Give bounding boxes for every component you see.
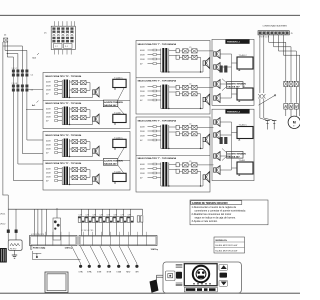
relay contacts cluster bbox=[169, 126, 176, 128]
svg-text:C5: C5 bbox=[189, 47, 191, 49]
connector plug (R column 1) bbox=[214, 50, 221, 59]
svg-text:400V: 400V bbox=[46, 168, 51, 170]
wire supply entry bbox=[3, 42, 27, 57]
wire bottom frame line bbox=[0, 292, 300, 294]
wire M1 separator bbox=[136, 77, 210, 79]
svg-text:1 2 3 4 5 6 7 8: 1 2 3 4 5 6 7 8 9 bbox=[81, 230, 93, 232]
connector plug (R column 3) bbox=[214, 80, 221, 89]
svg-text:1-Desconectar el neutro de: 1-Desconectar el neutro de la regleta de bbox=[192, 206, 237, 209]
TOPOGRAFIA box M2 bbox=[136, 117, 210, 192]
svg-text:0 2N 2V 1N 1V N: 0 2N 2V 1N 1V N bbox=[31, 234, 45, 236]
note box MODELOS bbox=[214, 237, 245, 253]
connector plug J bbox=[203, 97, 206, 101]
connector plug J bbox=[93, 117, 96, 121]
selector box L1 (SELECCIONA TIPO T2) bbox=[43, 73, 130, 129]
svg-text:TENSION L1: TENSION L1 bbox=[227, 42, 241, 44]
svg-text:6 NE: 6 NE bbox=[97, 271, 102, 273]
svg-text:SU-80L MOTOR 20 kW: SU-80L MOTOR 20 kW bbox=[215, 250, 237, 252]
wire sub-circuit links bbox=[86, 109, 90, 111]
transformer T (middle column) bbox=[160, 163, 162, 187]
display T1-400 bbox=[237, 160, 253, 175]
node wire tags 2V 2N bbox=[7, 230, 18, 233]
selector box L2 (SELECCIONA TIPO T1) bbox=[43, 132, 130, 191]
svg-text:12M 3φ: 12M 3φ bbox=[65, 247, 73, 249]
wire phase feeders bbox=[13, 46, 27, 70]
svg-text:12M 3φ: 12M 3φ bbox=[151, 249, 159, 251]
svg-text:130V: 130V bbox=[46, 116, 51, 118]
wire sub-circuit links bbox=[197, 170, 200, 172]
DIP switch block S1 bbox=[51, 21, 75, 54]
relay contacts cluster bbox=[70, 168, 73, 170]
wire sub-circuit links bbox=[197, 56, 200, 58]
svg-text:230V: 230V bbox=[140, 168, 145, 170]
svg-text:230V: 230V bbox=[46, 85, 51, 87]
connector plug (R column 4) bbox=[214, 166, 221, 175]
panel icon lines bottom bbox=[176, 283, 183, 286]
transformer sub-circuit M1b bbox=[138, 80, 214, 110]
display drum graphic bbox=[193, 266, 209, 282]
wire breaker output to L1 (lower) bbox=[26, 109, 43, 111]
transformer sub-circuit L2b bbox=[45, 162, 99, 185]
node cable marker dim2 bbox=[32, 101, 39, 108]
svg-text:segun se indica en la caj: segun se indica en la caja de bornes. bbox=[195, 216, 237, 219]
header bar TENSION L2 bbox=[225, 109, 249, 113]
callout AJUSTE TENSION bbox=[222, 149, 246, 161]
svg-text:(F)C1: (F)C1 bbox=[0, 214, 6, 216]
svg-text:(F)C2: (F)C2 bbox=[0, 224, 6, 226]
wire L2 separator bbox=[43, 159, 130, 161]
svg-text:400V: 400V bbox=[140, 86, 145, 88]
inspection window box bbox=[45, 272, 68, 293]
EMI filter FL1 bbox=[8, 240, 22, 250]
wire sub-circuit links bbox=[197, 93, 200, 95]
svg-text:M: M bbox=[293, 121, 296, 125]
contactor K1 (4-pole row 2) bbox=[12, 83, 29, 92]
transformer T (middle column) bbox=[160, 125, 162, 149]
transformer T (left column) bbox=[61, 107, 63, 125]
wire M2 separator bbox=[136, 155, 210, 157]
relay module K3 bbox=[53, 208, 61, 240]
svg-text:130V: 130V bbox=[46, 89, 51, 91]
panel icon lines top bbox=[176, 265, 183, 268]
node cable marker dim1 bbox=[33, 53, 40, 60]
wire drops to strip 1 bbox=[34, 209, 46, 235]
svg-text:NEU: NEU bbox=[126, 271, 131, 273]
connector plug J bbox=[203, 137, 206, 141]
wire sub-circuit links bbox=[86, 169, 90, 171]
transformer T (left column) bbox=[61, 139, 63, 157]
wire between breaker rows bbox=[13, 77, 27, 85]
svg-text:130V: 130V bbox=[140, 95, 145, 97]
wire L1 separator bbox=[43, 100, 130, 102]
transformer sub-circuit M1a bbox=[138, 43, 214, 73]
wire left edge run bbox=[2, 46, 4, 195]
note box CAMBIO DE TENSION bbox=[190, 200, 268, 225]
panel label bar bbox=[184, 287, 217, 292]
wire breaker output to L1 (upper) bbox=[28, 89, 43, 91]
relay contacts cluster bbox=[169, 86, 176, 88]
wire horizontal bus bbox=[8, 208, 142, 210]
transformer T (left column) bbox=[61, 167, 63, 185]
svg-text:2-Realizar las conexiones d: 2-Realizar las conexiones del motor bbox=[192, 213, 232, 216]
svg-text:MODELOS:: MODELOS: bbox=[216, 240, 228, 242]
connector plug J bbox=[93, 90, 96, 94]
transformer sub-circuit L1a bbox=[45, 75, 99, 98]
transformer sub-circuit L1b bbox=[45, 102, 99, 125]
control panel bezel bbox=[163, 262, 241, 293]
svg-text:SU-80L MOTOR 15 kW: SU-80L MOTOR 15 kW bbox=[215, 245, 237, 247]
terminal posts row bbox=[79, 265, 139, 274]
svg-text:1 3 5 7: 1 3 5 7 bbox=[12, 68, 18, 70]
component pair (R2 inputs) bbox=[220, 137, 228, 144]
overload relay F1 (3-pole) bbox=[284, 104, 299, 114]
wire sub-circuit links bbox=[86, 82, 90, 84]
svg-text:400V: 400V bbox=[46, 81, 51, 83]
display Ti-400 C (L2 upper) bbox=[113, 138, 126, 150]
transformer T (left column) bbox=[61, 80, 63, 98]
transformer sub-circuit M2a bbox=[138, 120, 214, 150]
wire bus risers bbox=[8, 209, 142, 240]
panel cable connector bbox=[150, 275, 164, 293]
motor M (3~) bbox=[286, 113, 301, 129]
svg-text:130V: 130V bbox=[140, 173, 145, 175]
relay contacts cluster bbox=[169, 164, 176, 166]
relay contacts cluster bbox=[70, 108, 73, 110]
terminal strip CON2 bbox=[79, 230, 157, 245]
panel display window bbox=[184, 264, 217, 286]
svg-text:2 4 6 8: 2 4 6 8 bbox=[12, 83, 18, 85]
svg-text:TENSION L2: TENSION L2 bbox=[227, 112, 241, 114]
svg-text:230V: 230V bbox=[140, 54, 145, 56]
svg-text:400V: 400V bbox=[140, 50, 145, 52]
panel button select bbox=[220, 273, 228, 278]
connector plug J bbox=[203, 61, 206, 65]
display Ti-400 (L1 lower) bbox=[113, 113, 126, 125]
svg-text:3-Ajuste el rele termico.: 3-Ajuste el rele termico. bbox=[192, 220, 219, 223]
terminal strip J5 bbox=[258, 31, 294, 35]
connector plug (R column 3) bbox=[214, 152, 221, 161]
display tick marks bbox=[193, 283, 211, 285]
svg-text:C5: C5 bbox=[189, 84, 191, 86]
tension box (TENSION L2) bbox=[212, 109, 254, 180]
connector plug J bbox=[93, 177, 96, 181]
transformer T (middle column) bbox=[160, 49, 162, 73]
wire R internal rail bbox=[220, 54, 237, 98]
display T1-400 C bbox=[237, 125, 253, 140]
callout AJUSTE (L2) bbox=[103, 148, 124, 174]
svg-text:400V: 400V bbox=[46, 108, 51, 110]
connector plug J bbox=[93, 149, 96, 153]
svg-text:400V: 400V bbox=[140, 164, 145, 166]
fuse label bbox=[30, 246, 45, 250]
tension box (TENSION L1) bbox=[212, 39, 254, 105]
display T1-400 C bbox=[237, 55, 253, 70]
connector plug (R column 4) bbox=[214, 94, 221, 103]
svg-text:230V: 230V bbox=[46, 144, 51, 146]
svg-text:130V: 130V bbox=[46, 176, 51, 178]
svg-text:C5: C5 bbox=[189, 124, 191, 126]
callout AJUSTE (L1) bbox=[103, 88, 124, 114]
svg-text:130V: 130V bbox=[140, 59, 145, 61]
capacitor terminals at switch output bbox=[260, 118, 277, 130]
panel button up bbox=[219, 264, 228, 270]
component pair (R1 inputs) bbox=[220, 66, 228, 73]
wire sub-circuit links bbox=[86, 141, 90, 143]
panel button down bbox=[219, 280, 228, 286]
wire staircase to selector box bbox=[3, 92, 44, 210]
panel button middle dark bbox=[176, 272, 182, 279]
relay row C1V..C8V bbox=[78, 209, 133, 235]
connector plug (R column 1) bbox=[214, 118, 221, 127]
svg-text:FILTRO: FILTRO bbox=[10, 248, 17, 250]
node left edge labels (F)C1 (F)C2 bbox=[0, 214, 6, 226]
transformer T (middle column) bbox=[160, 85, 162, 109]
relay contacts cluster bbox=[70, 140, 73, 142]
TOPOGRAFIA box M1 bbox=[136, 41, 210, 115]
svg-text:230V: 230V bbox=[46, 112, 51, 114]
transformer sub-circuit L2a bbox=[45, 134, 99, 157]
terminal fan-out wires bbox=[72, 246, 137, 265]
connector plug (R column 2) bbox=[214, 63, 221, 72]
display Ti-400 C (L1 upper) bbox=[113, 78, 126, 90]
ground symbol bbox=[12, 250, 17, 258]
svg-text:400V: 400V bbox=[140, 126, 145, 128]
panel button left bbox=[166, 271, 176, 281]
wire motor feeders bbox=[260, 35, 300, 116]
svg-text:conexiones y conectar el p: conexiones y conectar el puente suminist… bbox=[195, 210, 247, 213]
stamp (rotated doc number) bbox=[0, 248, 7, 263]
svg-text:GHI: GHI bbox=[135, 271, 139, 273]
disconnect switch Q2 bbox=[258, 94, 276, 118]
svg-text:(*): (*) bbox=[4, 35, 7, 37]
contactor KM1 (3-pole) bbox=[283, 80, 298, 103]
svg-text:(*): (*) bbox=[44, 33, 47, 35]
svg-text:130V: 130V bbox=[140, 135, 145, 137]
relay contacts cluster bbox=[169, 50, 176, 52]
svg-text:230V: 230V bbox=[140, 91, 145, 93]
svg-text:C5: C5 bbox=[189, 161, 191, 163]
connector plug J bbox=[203, 175, 206, 179]
svg-text:230V: 230V bbox=[46, 172, 51, 174]
terminal strip CON1 bbox=[30, 232, 78, 246]
fuse F0 supply tap bbox=[4, 38, 8, 42]
wire fuse branch bbox=[33, 251, 42, 258]
svg-text:130V: 130V bbox=[46, 148, 51, 150]
wire top frame line bbox=[0, 14, 300, 16]
display T1-400 bbox=[237, 86, 253, 101]
relay contacts cluster bbox=[70, 81, 73, 83]
circuit breaker Q1 (4-pole row 1) bbox=[12, 68, 29, 77]
connector plug (R column 2) bbox=[214, 131, 221, 140]
transformer sub-circuit M2b bbox=[138, 157, 214, 187]
relay C8 right bbox=[137, 216, 143, 236]
svg-text:400V: 400V bbox=[46, 140, 51, 142]
display Ti-400 (L2 lower) bbox=[113, 172, 126, 184]
svg-text:B NE: B NE bbox=[107, 271, 112, 273]
wire sub-circuit links bbox=[197, 133, 200, 135]
wire R internal rail bbox=[220, 122, 237, 170]
header bar TENSION L1 bbox=[225, 39, 249, 43]
wire bottom rail bbox=[33, 259, 81, 261]
callout AJUSTE TENSION bbox=[222, 79, 246, 91]
svg-text:230V: 230V bbox=[140, 131, 145, 133]
